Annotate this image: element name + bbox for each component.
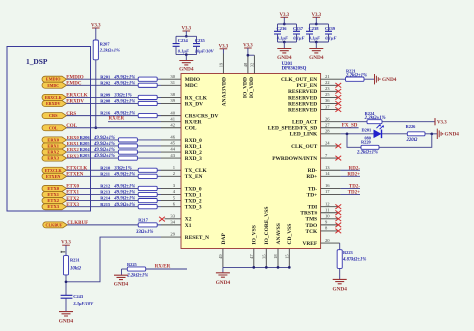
svg-text:LED_LINK: LED_LINK <box>290 132 318 138</box>
svg-text:10kΩ: 10kΩ <box>70 266 81 271</box>
svg-text:0.1µF: 0.1µF <box>293 36 304 41</box>
pin name RESERVED <box>288 89 317 95</box>
pin 13 <box>325 165 330 170</box>
wire ETX2 <box>67 200 182 202</box>
pin 34 <box>170 220 175 225</box>
pin 6 <box>173 201 176 206</box>
net label ETX0 <box>66 185 79 190</box>
svg-text:12: 12 <box>325 201 330 206</box>
net label ERX2 <box>67 147 80 152</box>
svg-text:RD2+: RD2+ <box>347 172 360 177</box>
svg-text:20: 20 <box>325 238 330 243</box>
wire RESET_N <box>66 237 181 282</box>
svg-text:1: 1 <box>173 165 176 170</box>
wire bus to GND <box>222 267 224 272</box>
svg-text:R212: R212 <box>100 184 111 189</box>
svg-text:2.2kΩ±1%: 2.2kΩ±1% <box>126 274 148 279</box>
port CRS <box>42 113 67 119</box>
pin name TDO <box>306 223 318 229</box>
svg-text:GND4: GND4 <box>332 287 347 293</box>
pin name RXD_2 <box>185 150 202 156</box>
svg-text:C237: C237 <box>293 26 304 31</box>
pin name RX_CLK <box>185 95 208 101</box>
svg-text:ETX3: ETX3 <box>47 204 59 209</box>
wire C236 to GND <box>283 42 285 48</box>
svg-text:47: 47 <box>249 254 254 259</box>
pin 7 <box>325 153 328 158</box>
svg-text:CLKBUF: CLKBUF <box>46 222 63 227</box>
port ERXCLK <box>42 94 67 100</box>
svg-text:48: 48 <box>243 62 248 67</box>
svg-text:0.1µF: 0.1µF <box>277 36 288 41</box>
port ETX1 <box>42 192 67 198</box>
resistor R201 <box>100 74 157 81</box>
svg-text:CLK_OUT: CLK_OUT <box>291 144 317 150</box>
svg-text:49.9Ω±1%: 49.9Ω±1% <box>113 191 135 196</box>
ground GND4 (C234) <box>179 61 194 73</box>
wire TD2- <box>321 187 360 189</box>
svg-text:45: 45 <box>170 141 175 146</box>
svg-text:26: 26 <box>325 116 330 121</box>
port ETX2 <box>42 198 67 204</box>
resistor R211 <box>100 171 157 178</box>
svg-text:R214: R214 <box>100 196 111 201</box>
svg-text:X1: X1 <box>185 223 192 229</box>
pin 46 <box>170 135 175 140</box>
svg-text:ERX2: ERX2 <box>47 150 59 155</box>
pin 47 <box>249 254 254 259</box>
wire ERX1 <box>67 145 182 147</box>
svg-text:EMDIO: EMDIO <box>46 77 61 82</box>
svg-text:IO_CORE_VSS: IO_CORE_VSS <box>264 207 270 245</box>
svg-text:MDC: MDC <box>185 83 198 89</box>
capacitor C236 / C237 <box>274 24 305 42</box>
pin stub (NC) <box>321 96 338 98</box>
svg-text:R213: R213 <box>100 190 111 195</box>
resistor R225 <box>126 262 148 279</box>
no-connect X <box>335 229 341 234</box>
svg-text:GND4: GND4 <box>59 318 74 324</box>
svg-text:RX/ER: RX/ER <box>155 265 171 270</box>
pin 27 <box>325 122 330 127</box>
pin name ANAVSS <box>276 223 282 244</box>
svg-text:ERX0: ERX0 <box>67 135 80 140</box>
pin name TXD_2 <box>185 199 202 205</box>
wire EMDIO <box>67 78 182 80</box>
svg-text:IO_VDD: IO_VDD <box>249 77 255 98</box>
no-connect X <box>335 95 341 100</box>
pin stub (NC) <box>321 230 338 232</box>
svg-text:R223: R223 <box>343 250 354 255</box>
pin 25 <box>325 92 330 97</box>
no-connect X <box>335 204 341 209</box>
svg-text:R202: R202 <box>100 80 111 85</box>
power V3.3 (C236) <box>279 13 289 18</box>
junction (VSS bus) <box>277 266 280 269</box>
wire V3.3 to IO_VDD pins <box>248 48 255 74</box>
svg-text:11: 11 <box>325 207 330 212</box>
power V3.3 (IO_VDD) <box>243 44 253 49</box>
wire ERX3 <box>67 157 182 159</box>
svg-text:PWRDOWN/INTN: PWRDOWN/INTN <box>272 156 317 162</box>
svg-text:R210: R210 <box>100 165 111 170</box>
svg-text:ETX1: ETX1 <box>47 192 59 197</box>
ground GND4 (VSS) <box>216 273 231 286</box>
svg-text:ERX0: ERX0 <box>47 137 59 142</box>
pin 18 <box>273 254 278 259</box>
svg-text:13: 13 <box>325 165 330 170</box>
net label EMDIO <box>66 75 84 80</box>
resistor R224 <box>364 111 386 124</box>
pin 11 <box>325 207 330 212</box>
junction <box>247 54 250 57</box>
pin 45 <box>170 141 175 146</box>
wire RD2- <box>321 169 360 171</box>
svg-text:ERX3: ERX3 <box>47 156 59 161</box>
resistor R214 <box>100 196 157 203</box>
pin 40 <box>170 110 175 115</box>
pin name X1 <box>185 223 192 229</box>
pin stub (NC) <box>321 224 338 226</box>
power V3.3 (C238) <box>311 13 321 18</box>
svg-text:35: 35 <box>261 254 266 259</box>
pin 42 <box>170 122 175 127</box>
wire COL <box>67 127 182 129</box>
pin 9 <box>325 220 328 225</box>
capacitor C238 / C239 <box>306 24 337 42</box>
junction <box>185 35 188 38</box>
svg-text:C243: C243 <box>73 294 84 299</box>
port COL <box>42 125 66 131</box>
svg-text:RESERVED: RESERVED <box>288 107 317 113</box>
svg-text:46: 46 <box>170 135 175 140</box>
pin stub (NC) <box>321 145 338 147</box>
wire R231 to C243 <box>65 275 67 295</box>
junction <box>185 53 188 56</box>
pin name RX/ER <box>185 120 202 126</box>
svg-text:IO_VSS: IO_VSS <box>252 225 258 244</box>
pin name LED_LINK <box>290 132 318 138</box>
svg-text:2.2kΩ±1%: 2.2kΩ±1% <box>356 150 378 155</box>
svg-text:0.1µF: 0.1µF <box>309 36 320 41</box>
junction <box>315 23 318 26</box>
pin 35 <box>261 254 266 259</box>
resistor R212 <box>100 184 157 191</box>
svg-text:ERXCLK: ERXCLK <box>45 95 63 100</box>
junction (R226 out) <box>430 132 433 135</box>
svg-text:10: 10 <box>325 214 330 219</box>
pin 41 <box>170 116 175 121</box>
svg-text:CD_VSS: CD_VSS <box>287 224 293 245</box>
pin name IO_VDD (32) <box>249 77 255 98</box>
resistor R215 <box>100 202 157 209</box>
svg-text:49.9Ω±1%: 49.9Ω±1% <box>113 203 135 208</box>
net label RX/ER <box>109 116 125 121</box>
svg-text:49.9Ω±1%: 49.9Ω±1% <box>113 185 135 190</box>
svg-text:R231: R231 <box>70 258 80 263</box>
resistor R221 <box>345 69 367 82</box>
pin stub (NC) <box>321 109 338 111</box>
svg-text:49.9Ω±1%: 49.9Ω±1% <box>93 136 115 141</box>
pin name LED_ACT <box>292 120 318 126</box>
junction <box>283 41 286 44</box>
svg-text:TD2+: TD2+ <box>348 191 360 196</box>
wire RX/ER <box>108 121 181 123</box>
pin 23 <box>325 86 330 91</box>
LED D201 <box>362 124 385 141</box>
pin name TDI <box>308 205 318 211</box>
pin name RX_DV <box>185 101 203 107</box>
pin 31 <box>170 80 175 85</box>
svg-text:R217: R217 <box>138 218 149 223</box>
pin name CLK_OUT_EN <box>281 77 317 83</box>
pin 29 <box>170 232 175 237</box>
pin 15 <box>284 254 289 259</box>
ground GND4 (C238) <box>309 49 324 61</box>
svg-text:R206: R206 <box>80 135 91 140</box>
svg-text:17: 17 <box>325 189 330 194</box>
svg-text:23: 23 <box>325 86 330 91</box>
svg-text:8: 8 <box>325 226 328 231</box>
port ERX3 <box>42 155 67 161</box>
svg-text:R205: R205 <box>80 141 91 146</box>
svg-text:21: 21 <box>325 74 330 79</box>
pin name TD- <box>308 186 317 192</box>
net label FX_SD <box>342 123 358 128</box>
resistor R204 <box>80 147 138 154</box>
port ERX2 <box>42 149 67 155</box>
junction (LED_LINK) <box>346 132 349 135</box>
pin name DAP <box>221 233 227 245</box>
svg-text:GND4: GND4 <box>382 77 397 83</box>
pin name LED_SPEED/FX_SD <box>268 126 318 132</box>
no-connect X <box>335 83 341 88</box>
net label ERXCLK <box>66 94 88 99</box>
svg-text:R220: R220 <box>361 140 372 145</box>
svg-text:3.3µF/10V: 3.3µF/10V <box>72 301 94 306</box>
svg-text:RXD_3: RXD_3 <box>185 156 202 162</box>
junction <box>283 23 286 26</box>
svg-text:RX/ER: RX/ER <box>109 116 125 121</box>
pin name X2 <box>185 217 192 223</box>
svg-text:EMDC: EMDC <box>47 83 59 88</box>
ground GND4 (R225) <box>114 275 129 287</box>
svg-text:R209: R209 <box>100 93 111 98</box>
svg-text:34: 34 <box>170 220 175 225</box>
wire ETXCLK <box>67 169 182 171</box>
pin 30 <box>170 74 175 79</box>
svg-text:R211: R211 <box>100 171 111 176</box>
svg-text:EMDIO: EMDIO <box>66 75 84 80</box>
pin name RESERVED <box>288 101 317 107</box>
svg-text:ANA33VDD: ANA33VDD <box>222 77 228 106</box>
wire R207 to COL net <box>95 60 97 128</box>
wire CRS <box>67 115 182 117</box>
net label RX/ER <box>155 265 171 270</box>
net label ERX0 <box>67 135 80 140</box>
svg-text:10µF/10V: 10µF/10V <box>195 49 215 54</box>
pin stub (NC) <box>321 102 338 104</box>
pin name PWRDOWN/INTN <box>272 156 317 162</box>
wire CLK_OUT_EN <box>321 78 375 80</box>
svg-text:C238: C238 <box>309 26 320 31</box>
svg-text:C236: C236 <box>277 26 288 31</box>
resistor R207 <box>93 40 120 60</box>
port ETXCLK <box>42 167 67 173</box>
svg-text:GND4: GND4 <box>179 67 194 73</box>
svg-text:49: 49 <box>218 254 223 259</box>
svg-text:DP83620SQ: DP83620SQ <box>282 67 307 72</box>
pin 44 <box>170 147 175 152</box>
pin 48 <box>243 62 248 67</box>
svg-text:3: 3 <box>173 183 176 188</box>
svg-text:R226: R226 <box>406 124 417 129</box>
pin 33 <box>170 214 175 219</box>
power V3.3 (C234) <box>181 27 191 32</box>
svg-text:49.9Ω±1%: 49.9Ω±1% <box>93 148 115 153</box>
designator U201 <box>282 62 293 67</box>
svg-text:19: 19 <box>218 62 223 67</box>
capacitor C243 <box>61 294 95 306</box>
wire EMDC <box>67 84 182 86</box>
pin 1 <box>173 165 176 170</box>
wire C243 to GND <box>65 299 67 312</box>
pin name CRS/CRS_DV <box>185 114 219 120</box>
svg-text:41: 41 <box>170 116 175 121</box>
net label TD2+ <box>348 191 360 196</box>
ground GND4 (C236) <box>277 49 292 61</box>
svg-text:ETX2: ETX2 <box>47 198 59 203</box>
pin 3 <box>173 183 176 188</box>
svg-text:R216: R216 <box>100 111 111 116</box>
svg-text:FX_SD: FX_SD <box>342 123 358 128</box>
pin 19 <box>218 62 223 67</box>
svg-text:C234: C234 <box>178 38 189 43</box>
pin 4 <box>173 189 176 194</box>
svg-text:49.9Ω±1%: 49.9Ω±1% <box>113 81 135 86</box>
pin name RXD_1 <box>185 144 202 150</box>
svg-text:R204: R204 <box>80 147 91 152</box>
pin name RXD_3 <box>185 156 202 162</box>
svg-text:9: 9 <box>325 220 328 225</box>
net label RD2- <box>349 166 361 171</box>
svg-text:33Ω±1%: 33Ω±1% <box>113 166 131 171</box>
svg-text:R203: R203 <box>80 153 91 158</box>
power V3.3 (R207) <box>91 24 101 29</box>
net label ERX1 <box>67 141 80 146</box>
pin name RD+ <box>306 174 317 180</box>
svg-text:28: 28 <box>325 129 330 134</box>
pin 24 <box>325 141 330 146</box>
pin name ANA33VDD <box>222 77 228 106</box>
port ERX0 <box>42 137 67 143</box>
wire R225 to RX/ER <box>146 268 187 270</box>
junction (VSS bus) <box>265 266 268 269</box>
svg-text:4: 4 <box>173 189 176 194</box>
IC U201 DP83620SQ body <box>181 74 321 249</box>
svg-text:CRS: CRS <box>49 113 58 118</box>
svg-text:EMDC: EMDC <box>66 81 82 86</box>
svg-text:33Ω±1%: 33Ω±1% <box>135 230 153 235</box>
net label RD2+ <box>347 172 360 177</box>
svg-text:31: 31 <box>170 80 175 85</box>
svg-text:33: 33 <box>170 214 175 219</box>
pin 26 <box>325 116 330 121</box>
pin name CLK_OUT <box>291 144 317 150</box>
power V3.3 (pin19) <box>219 44 229 49</box>
pin stub (NC) <box>321 157 338 159</box>
pin 21 <box>325 74 330 79</box>
wire V3.3 to caps <box>185 31 187 36</box>
net label ETX1 <box>66 191 79 196</box>
svg-text:RD2-: RD2- <box>349 166 361 171</box>
wire ERXCLK <box>67 96 182 98</box>
pin name TCK <box>306 229 318 235</box>
resistor R209 <box>100 93 157 100</box>
resistor R226 <box>406 124 426 143</box>
pin 39 <box>170 98 175 103</box>
wire V3.3 to C238/C239 <box>315 17 317 24</box>
svg-text:TD2-: TD2- <box>349 184 360 189</box>
port ERX1 <box>42 143 67 149</box>
wire V3.3 to R231 <box>65 245 67 255</box>
wire CLKBUF to X1 <box>67 224 181 226</box>
resistor R220 <box>356 140 379 156</box>
no-connect X <box>335 107 341 112</box>
svg-text:27: 27 <box>325 122 330 127</box>
junction on COL <box>94 126 97 129</box>
net label ETX3 <box>66 203 79 208</box>
sheet symbol 1_DSP <box>7 47 91 212</box>
svg-text:GND4: GND4 <box>114 281 129 287</box>
net label CRS <box>66 112 76 117</box>
wire ETX0 <box>67 187 182 189</box>
svg-text:14: 14 <box>325 171 330 176</box>
resistor R210 <box>100 165 157 172</box>
port ETX3 <box>42 204 67 210</box>
svg-text:40: 40 <box>170 110 175 115</box>
resistor R213 <box>100 190 157 197</box>
tick mark (R231) <box>61 251 65 253</box>
svg-text:29: 29 <box>170 232 175 237</box>
pin 8 <box>325 226 328 231</box>
junction (VSS bus) <box>288 266 291 269</box>
svg-text:38: 38 <box>170 92 175 97</box>
svg-text:6: 6 <box>173 201 176 206</box>
pin name RXD_0 <box>185 138 202 144</box>
svg-text:49.9Ω±1%: 49.9Ω±1% <box>113 197 135 202</box>
pin 36 <box>325 98 330 103</box>
capacitor C234 <box>173 36 197 54</box>
wire TD2+ <box>321 194 360 196</box>
pin name IO_VDD (48) <box>243 77 249 98</box>
pin 12 <box>325 201 330 206</box>
power V3.3 (R231) <box>61 241 71 246</box>
pin 22 <box>325 80 330 85</box>
pin name IO_VSS <box>252 225 258 244</box>
power V3.3 (LED) <box>435 118 447 126</box>
pin name VREF <box>303 241 318 247</box>
svg-text:33Ω±1%: 33Ω±1% <box>113 94 131 99</box>
wire LED_ACT <box>321 121 435 123</box>
junction <box>315 41 318 44</box>
svg-text:ETXCLK: ETXCLK <box>45 168 63 173</box>
part DP83620SQ <box>282 67 307 72</box>
svg-text:RD+: RD+ <box>306 174 317 180</box>
port CLKBUF <box>43 222 68 228</box>
net label ETXEN <box>66 173 84 178</box>
svg-text:V3.3: V3.3 <box>437 121 447 126</box>
